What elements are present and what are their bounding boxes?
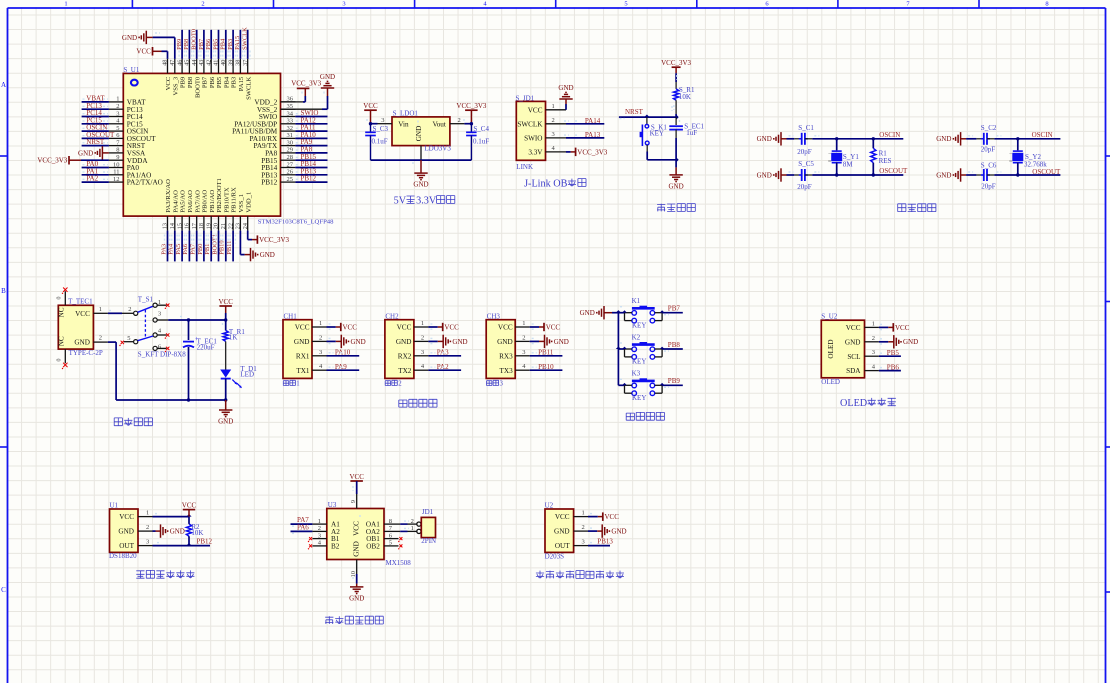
svg-text:2: 2 <box>582 524 585 531</box>
svg-text:PB12: PB12 <box>261 179 277 187</box>
svg-text:VCC: VCC <box>353 521 361 536</box>
svg-text:1: 1 <box>319 320 322 327</box>
svg-text:23: 23 <box>235 223 242 229</box>
svg-text:5: 5 <box>389 540 392 547</box>
svg-text:SCL: SCL <box>847 353 860 361</box>
svg-text:GND: GND <box>353 541 361 557</box>
svg-text:27: 27 <box>287 161 294 168</box>
svg-text:8M: 8M <box>843 161 854 169</box>
svg-text:BOOT0: BOOT0 <box>194 76 201 98</box>
svg-text:0: 0 <box>56 359 62 362</box>
svg-text:VCC: VCC <box>605 513 620 521</box>
svg-text:S_C4: S_C4 <box>473 125 489 133</box>
svg-text:S_U2: S_U2 <box>821 313 837 321</box>
svg-text:SWCLK: SWCLK <box>242 27 249 50</box>
svg-text:VDD_1: VDD_1 <box>245 192 252 213</box>
svg-text:19: 19 <box>205 223 212 229</box>
svg-text:3: 3 <box>116 110 119 117</box>
svg-text:B: B <box>1 287 6 295</box>
svg-text:1: 1 <box>582 510 585 517</box>
svg-text:S_JD1: S_JD1 <box>516 94 535 102</box>
svg-text:GND: GND <box>452 338 467 346</box>
svg-text:PB7: PB7 <box>202 76 209 88</box>
svg-text:11: 11 <box>113 169 119 176</box>
svg-text:9: 9 <box>116 154 119 161</box>
svg-text:3: 3 <box>158 310 161 317</box>
svg-text:VSS_1: VSS_1 <box>238 194 245 213</box>
svg-text:RX1: RX1 <box>296 352 310 360</box>
svg-text:VCC: VCC <box>165 76 172 90</box>
svg-text:1: 1 <box>318 518 321 525</box>
svg-text:1: 1 <box>552 103 555 110</box>
svg-text:2: 2 <box>319 334 322 341</box>
svg-text:0.1uF: 0.1uF <box>473 137 489 145</box>
svg-text:CH1: CH1 <box>284 312 298 320</box>
svg-text:S_C1: S_C1 <box>798 124 814 132</box>
svg-text:PA13: PA13 <box>585 131 601 139</box>
svg-text:PB11: PB11 <box>538 349 554 357</box>
svg-text:VCC: VCC <box>182 501 197 509</box>
svg-text:2: 2 <box>552 117 555 124</box>
svg-text:28: 28 <box>287 154 294 161</box>
svg-text:T_S1: T_S1 <box>138 295 154 303</box>
svg-text:PB5: PB5 <box>216 76 223 88</box>
svg-text:2: 2 <box>128 306 131 313</box>
svg-text:VCC: VCC <box>119 513 134 521</box>
svg-text:S_C6: S_C6 <box>981 162 997 170</box>
svg-text:VCC: VCC <box>75 310 90 318</box>
svg-text:RX2: RX2 <box>398 352 412 360</box>
svg-text:PB9: PB9 <box>176 39 183 50</box>
svg-text:VCC: VCC <box>846 324 861 332</box>
svg-text:PB1/AO: PB1/AO <box>209 190 216 213</box>
svg-text:3: 3 <box>582 539 585 546</box>
svg-text:25: 25 <box>287 176 294 183</box>
svg-text:TYPE-C-2P: TYPE-C-2P <box>69 349 103 357</box>
svg-text:OSCOUT: OSCOUT <box>879 167 908 175</box>
svg-text:JD1: JD1 <box>422 508 434 516</box>
svg-text:OUT: OUT <box>119 542 134 550</box>
svg-text:PB12: PB12 <box>301 175 317 183</box>
svg-text:2PIN: 2PIN <box>421 537 436 545</box>
svg-text:D203S: D203S <box>545 552 565 560</box>
svg-text:PA6: PA6 <box>182 243 189 255</box>
svg-text:VCC: VCC <box>295 324 310 332</box>
svg-text:C: C <box>1 586 6 594</box>
svg-text:GND: GND <box>554 338 569 346</box>
svg-text:12: 12 <box>113 176 120 183</box>
svg-text:SWCLK: SWCLK <box>517 120 543 128</box>
svg-text:S_C2: S_C2 <box>981 124 997 132</box>
svg-text:VCC: VCC <box>555 513 570 521</box>
svg-text:VCC: VCC <box>895 324 910 332</box>
svg-text:PA3/RX/AO: PA3/RX/AO <box>165 179 172 213</box>
svg-text:1: 1 <box>522 320 525 327</box>
svg-text:20pF: 20pF <box>981 146 996 154</box>
svg-text:GND: GND <box>497 338 513 346</box>
svg-text:VCC: VCC <box>444 323 459 331</box>
svg-text:GND: GND <box>118 528 134 536</box>
svg-text:PB10/TX: PB10/TX <box>223 187 230 213</box>
svg-text:1: 1 <box>116 96 119 103</box>
svg-text:0: 0 <box>56 297 62 300</box>
svg-text:16: 16 <box>184 223 191 229</box>
svg-text:VCC_3V3: VCC_3V3 <box>37 157 67 165</box>
svg-text:GND: GND <box>122 34 137 42</box>
svg-text:22: 22 <box>227 223 234 229</box>
svg-text:S_KFT DIP-8X8: S_KFT DIP-8X8 <box>138 350 186 358</box>
svg-text:GND: GND <box>294 338 310 346</box>
svg-text:OB2: OB2 <box>366 543 380 551</box>
svg-text:PA4/AO: PA4/AO <box>172 190 179 213</box>
svg-text:TX2: TX2 <box>398 367 412 375</box>
svg-text:2: 2 <box>318 525 321 532</box>
svg-text:3: 3 <box>342 0 345 7</box>
svg-text:14: 14 <box>169 223 176 229</box>
svg-text:2: 2 <box>421 334 424 341</box>
svg-text:VCC_3V3: VCC_3V3 <box>291 80 321 88</box>
svg-text:2: 2 <box>522 334 525 341</box>
svg-text:DS18B20: DS18B20 <box>109 552 137 560</box>
svg-text:GND: GND <box>415 126 423 142</box>
svg-text:PB12: PB12 <box>197 538 213 546</box>
svg-text:KEY: KEY <box>632 321 646 329</box>
svg-text:GND: GND <box>74 339 90 347</box>
svg-text:42: 42 <box>205 60 212 66</box>
svg-text:21: 21 <box>220 223 227 229</box>
svg-text:PB1: PB1 <box>204 244 211 255</box>
svg-text:PA5: PA5 <box>175 244 182 255</box>
svg-text:2: 2 <box>458 117 461 124</box>
svg-text:OLED: OLED <box>840 398 867 409</box>
svg-text:Vin: Vin <box>398 121 409 129</box>
svg-text:0.1uF: 0.1uF <box>372 137 388 145</box>
svg-text:3: 3 <box>500 381 504 388</box>
svg-text:32: 32 <box>287 125 294 132</box>
svg-text:1: 1 <box>411 525 414 532</box>
svg-text:PB2/BOOT1: PB2/BOOT1 <box>216 178 223 212</box>
svg-text:PA5/AO: PA5/AO <box>180 190 187 213</box>
svg-text:1: 1 <box>146 510 149 517</box>
svg-text:KEY: KEY <box>632 394 646 402</box>
svg-text:31: 31 <box>287 132 294 139</box>
svg-text:NRST: NRST <box>625 108 644 116</box>
svg-text:1: 1 <box>872 320 875 327</box>
svg-text:1uF: 1uF <box>686 129 697 137</box>
svg-text:TX1: TX1 <box>296 367 310 375</box>
svg-text:PB0: PB0 <box>197 244 204 255</box>
svg-text:3: 3 <box>552 131 555 138</box>
svg-text:BOOT1: BOOT1 <box>211 234 218 255</box>
svg-text:PA10: PA10 <box>335 349 351 357</box>
svg-text:48: 48 <box>162 60 169 66</box>
svg-text:41: 41 <box>213 60 220 66</box>
svg-text:3: 3 <box>421 349 424 356</box>
svg-text:30: 30 <box>287 139 294 146</box>
svg-text:44: 44 <box>191 60 198 66</box>
svg-text:PA3: PA3 <box>160 244 167 255</box>
svg-text:37: 37 <box>242 60 249 66</box>
svg-text:3: 3 <box>319 349 322 356</box>
svg-text:PB10: PB10 <box>219 240 226 254</box>
svg-text:10: 10 <box>113 161 120 168</box>
svg-text:GND: GND <box>260 251 275 259</box>
svg-text:GND: GND <box>413 181 428 189</box>
svg-text:40: 40 <box>220 60 227 66</box>
svg-text:Vout: Vout <box>432 121 445 129</box>
svg-text:PA7: PA7 <box>190 243 197 255</box>
svg-text:2: 2 <box>99 335 102 342</box>
svg-text:3: 3 <box>318 532 321 539</box>
svg-text:34: 34 <box>287 110 294 117</box>
svg-text:VCC: VCC <box>397 324 412 332</box>
svg-text:24: 24 <box>242 223 249 229</box>
svg-text:GND: GND <box>351 338 366 346</box>
svg-text:PB8: PB8 <box>187 76 194 88</box>
svg-text:VCC_3V3: VCC_3V3 <box>456 102 486 110</box>
svg-text:~: ~ <box>828 151 831 157</box>
svg-text:3.3V: 3.3V <box>528 149 543 157</box>
svg-text:GND: GND <box>558 84 573 92</box>
svg-text:NRST: NRST <box>86 138 105 146</box>
svg-text:2: 2 <box>201 0 204 7</box>
svg-text:PB6: PB6 <box>887 363 900 371</box>
svg-text:PB8: PB8 <box>183 39 190 50</box>
svg-text:GND: GND <box>320 73 335 81</box>
svg-text:PA2/TX/AO: PA2/TX/AO <box>127 179 163 187</box>
svg-text:STM32F103C8T6_LQFP48: STM32F103C8T6_LQFP48 <box>258 219 334 226</box>
svg-text:PB3: PB3 <box>227 39 234 50</box>
svg-text:S_C5: S_C5 <box>798 160 814 168</box>
svg-text:J-Link OB: J-Link OB <box>524 179 568 190</box>
svg-text:10K: 10K <box>191 529 203 537</box>
svg-text:GND: GND <box>845 338 861 346</box>
svg-text:8: 8 <box>116 147 119 154</box>
svg-text:PB7: PB7 <box>668 305 681 313</box>
svg-text:20pF: 20pF <box>797 183 812 191</box>
svg-text:PA6: PA6 <box>297 523 309 531</box>
svg-text:PB0/AO: PB0/AO <box>202 190 209 213</box>
svg-text:PB4: PB4 <box>220 38 227 50</box>
svg-text:CH2: CH2 <box>385 312 399 320</box>
svg-text:5: 5 <box>624 0 627 7</box>
svg-text:BOOT0: BOOT0 <box>191 29 198 50</box>
svg-text:PB3: PB3 <box>231 76 238 88</box>
svg-text:VSS_3: VSS_3 <box>172 76 179 95</box>
svg-text:RES: RES <box>879 157 892 165</box>
svg-text:GND: GND <box>936 135 951 143</box>
svg-text:17: 17 <box>191 223 198 229</box>
svg-text:RX3: RX3 <box>499 352 513 360</box>
svg-text:LED: LED <box>240 370 254 378</box>
svg-text:PA14: PA14 <box>585 117 601 125</box>
svg-text:47: 47 <box>169 60 176 66</box>
svg-text:43: 43 <box>198 60 205 66</box>
svg-text:VCC: VCC <box>528 106 543 114</box>
svg-text:GND: GND <box>936 171 951 179</box>
svg-text:15: 15 <box>176 223 183 229</box>
svg-text:VCC_3V3: VCC_3V3 <box>661 59 691 67</box>
svg-text:VCC: VCC <box>349 473 364 481</box>
svg-text:VCC: VCC <box>363 102 378 110</box>
svg-text:220uF: 220uF <box>197 344 215 352</box>
svg-text:2: 2 <box>398 381 402 388</box>
svg-text:5: 5 <box>127 335 130 342</box>
svg-text:18: 18 <box>198 223 205 229</box>
svg-text:PB10: PB10 <box>538 363 554 371</box>
svg-text:20: 20 <box>213 223 220 229</box>
svg-text:3: 3 <box>381 117 384 124</box>
svg-text:PB7: PB7 <box>198 38 205 50</box>
svg-text:GND: GND <box>218 417 233 425</box>
svg-text:PB5: PB5 <box>212 39 219 50</box>
svg-text:1: 1 <box>64 0 67 7</box>
svg-text:OLED: OLED <box>827 339 835 358</box>
svg-text:PA2: PA2 <box>86 175 98 183</box>
svg-text:33: 33 <box>287 118 294 125</box>
svg-text:PA15: PA15 <box>238 76 245 91</box>
svg-text:NC: NC <box>58 336 66 346</box>
svg-text:U3: U3 <box>328 501 337 509</box>
svg-text:VCC: VCC <box>498 324 513 332</box>
svg-text:3: 3 <box>522 349 525 356</box>
svg-text:K3: K3 <box>632 370 641 378</box>
svg-text:PB11: PB11 <box>226 241 233 255</box>
svg-text:GND: GND <box>554 528 570 536</box>
svg-text:TX3: TX3 <box>500 367 514 375</box>
svg-text:GND: GND <box>757 171 772 179</box>
svg-text:PB13: PB13 <box>597 538 613 546</box>
svg-text:SWIO: SWIO <box>524 135 542 143</box>
svg-text:OSCIN: OSCIN <box>879 131 900 139</box>
svg-text:2: 2 <box>872 335 875 342</box>
svg-text:45: 45 <box>184 60 191 66</box>
svg-text:8: 8 <box>389 518 392 525</box>
svg-text:32.768k: 32.768k <box>1024 161 1047 169</box>
svg-text:PB6: PB6 <box>209 76 216 88</box>
svg-text:38: 38 <box>235 60 242 66</box>
svg-text:K2: K2 <box>632 333 641 341</box>
svg-text:U2: U2 <box>545 502 554 510</box>
svg-text:GND: GND <box>170 528 185 536</box>
svg-text:KEY: KEY <box>632 358 646 366</box>
svg-text:PB11/RX: PB11/RX <box>231 187 238 213</box>
svg-text:OSCOUT: OSCOUT <box>1032 168 1061 176</box>
svg-text:3: 3 <box>872 349 875 356</box>
svg-text:PB9: PB9 <box>180 76 187 88</box>
svg-text:9: 9 <box>350 500 357 503</box>
svg-text:K1: K1 <box>632 297 641 305</box>
svg-text:3.3V: 3.3V <box>416 196 437 207</box>
svg-text:2: 2 <box>146 524 149 531</box>
svg-text:GND: GND <box>611 528 626 536</box>
svg-text:29: 29 <box>287 147 294 154</box>
svg-text:VCC: VCC <box>218 298 233 306</box>
svg-text:OUT: OUT <box>555 542 570 550</box>
svg-text:PA7/AO: PA7/AO <box>194 190 201 213</box>
svg-text:1: 1 <box>296 381 299 388</box>
svg-text:S_LDO1: S_LDO1 <box>393 109 419 117</box>
svg-text:10K: 10K <box>679 93 691 101</box>
svg-text:PA6/AO: PA6/AO <box>187 190 194 213</box>
svg-text:20pF: 20pF <box>797 148 812 156</box>
svg-text:SWCLK: SWCLK <box>245 77 252 100</box>
svg-text:1: 1 <box>421 320 424 327</box>
svg-text:13: 13 <box>162 223 169 229</box>
svg-text:VCC_3V3: VCC_3V3 <box>259 236 289 244</box>
svg-text:S_U1: S_U1 <box>123 66 139 74</box>
svg-text:GND: GND <box>580 309 595 317</box>
svg-text:GND: GND <box>349 594 364 602</box>
svg-text:1K: 1K <box>229 334 238 342</box>
svg-text:2: 2 <box>411 518 414 525</box>
svg-text:VCC: VCC <box>136 48 151 56</box>
svg-text:MX1508: MX1508 <box>386 559 412 567</box>
svg-text:2: 2 <box>116 103 119 110</box>
svg-text:GND: GND <box>78 149 93 157</box>
svg-text:PB9: PB9 <box>668 377 681 385</box>
svg-text:U1: U1 <box>110 502 119 510</box>
svg-text:26: 26 <box>287 169 294 176</box>
svg-text:PA4: PA4 <box>168 243 175 255</box>
svg-text:20pF: 20pF <box>981 183 996 191</box>
svg-text:39: 39 <box>227 60 234 66</box>
svg-text:OLED: OLED <box>821 378 840 386</box>
svg-text:SDA: SDA <box>846 367 861 375</box>
svg-text:PB4: PB4 <box>223 76 230 88</box>
svg-text:CH3: CH3 <box>487 312 501 320</box>
svg-text:5V: 5V <box>394 196 407 207</box>
svg-text:~: ~ <box>1009 151 1012 157</box>
svg-text:VCC_3V3: VCC_3V3 <box>577 148 607 156</box>
svg-text:GND: GND <box>903 338 918 346</box>
svg-text:VCC: VCC <box>546 323 561 331</box>
svg-text:GND: GND <box>757 135 772 143</box>
svg-text:5: 5 <box>116 125 119 132</box>
svg-text:KEY: KEY <box>650 129 664 137</box>
svg-text:GND: GND <box>669 182 684 190</box>
svg-text:PA15: PA15 <box>234 36 241 50</box>
svg-text:S_C3: S_C3 <box>373 125 389 133</box>
svg-text:GND: GND <box>396 338 412 346</box>
svg-text:B2: B2 <box>331 543 340 551</box>
svg-text:8: 8 <box>1045 0 1048 7</box>
svg-text:46: 46 <box>176 60 183 66</box>
svg-text:A: A <box>1 81 6 89</box>
svg-text:NC: NC <box>58 307 66 317</box>
svg-text:PB8: PB8 <box>668 341 681 349</box>
svg-text:OSCIN: OSCIN <box>1032 131 1053 139</box>
svg-text:PB5: PB5 <box>887 349 900 357</box>
svg-text:3: 3 <box>146 539 149 546</box>
svg-text:LDO3V3: LDO3V3 <box>424 145 451 153</box>
svg-text:PB6: PB6 <box>205 38 212 50</box>
svg-text:T_TEC1: T_TEC1 <box>68 298 93 306</box>
svg-text:LINK: LINK <box>516 163 533 171</box>
svg-text:VCC: VCC <box>343 323 358 331</box>
svg-text:1: 1 <box>99 306 102 313</box>
